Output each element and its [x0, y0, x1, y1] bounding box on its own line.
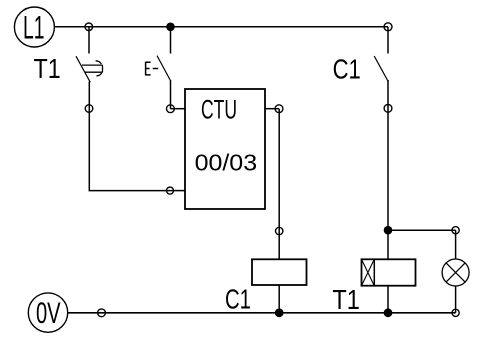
wire E- branch lower stub [170, 80, 172, 109]
wire coil C1 to bottom rail [278, 285, 280, 313]
coil C1 [252, 259, 307, 285]
svg-text:0V: 0V [36, 297, 61, 330]
node E- bottom terminal [167, 105, 175, 113]
wire E- branch upper stub [170, 27, 172, 54]
wire T1 branch lower + run to CTU lower-left terminal [89, 82, 170, 191]
wire C1 contact lower vertical to T1 coil [387, 80, 389, 259]
wire stub node to CTU box (lower left pin) [170, 190, 185, 192]
wire bottom rail [68, 312, 456, 314]
wire T1 coil to bottom rail [387, 286, 389, 313]
wire lamp upper lead [455, 230, 457, 259]
svg-text:C1: C1 [225, 284, 251, 315]
node CTU right terminal [275, 105, 283, 113]
supply terminal 0V [28, 293, 67, 332]
wire C1 contact upper stub [387, 27, 389, 54]
junction T1-coil / lamp branch [384, 226, 393, 235]
wire T1 branch upper stub [88, 27, 90, 54]
svg-text:T1: T1 [332, 284, 359, 315]
svg-text:T1: T1 [34, 53, 61, 84]
lamp H1 [442, 259, 469, 286]
node lamp top terminal [452, 227, 459, 234]
timer coil T1 (with X cell) [362, 259, 416, 285]
node T1 contact top terminal [85, 23, 93, 31]
node bottom rail terminal near 0V [98, 309, 106, 317]
supply terminal L1 [14, 7, 54, 47]
wire CTU box right pin stub [265, 108, 279, 110]
counter CTU box [185, 89, 265, 209]
node CTU lower-left terminal [167, 187, 174, 194]
svg-text:L1: L1 [23, 9, 45, 45]
wire branch junction to lamp terminal [388, 229, 456, 231]
wire CTU right terminal down to coil C1 [278, 109, 280, 260]
svg-text:CTU: CTU [201, 95, 237, 125]
pushbutton contact E- blade [157, 56, 171, 81]
junction coil C1 / bottom rail [275, 308, 284, 317]
node T1 contact bottom terminal [85, 105, 93, 113]
timer contact T1 (NO on-delay) [76, 56, 103, 82]
node lamp bottom terminal (rail end) [452, 309, 459, 316]
wire lamp lower lead [455, 286, 457, 313]
node C1 contact bottom terminal [384, 104, 392, 112]
junction coil T1 / bottom rail [384, 308, 393, 317]
wire node to CTU box (upper left pin) [170, 108, 185, 110]
contact C1 (NO) blade [374, 56, 388, 82]
label E- with actuator dash [146, 62, 159, 76]
node mid terminal above coil C1 [276, 227, 283, 234]
wire top rail [54, 26, 388, 28]
svg-text:00/03: 00/03 [195, 149, 258, 175]
node C1 contact top terminal (rail end) [384, 23, 392, 31]
junction top rail / E- branch [166, 23, 175, 32]
svg-text:C1: C1 [333, 53, 361, 84]
